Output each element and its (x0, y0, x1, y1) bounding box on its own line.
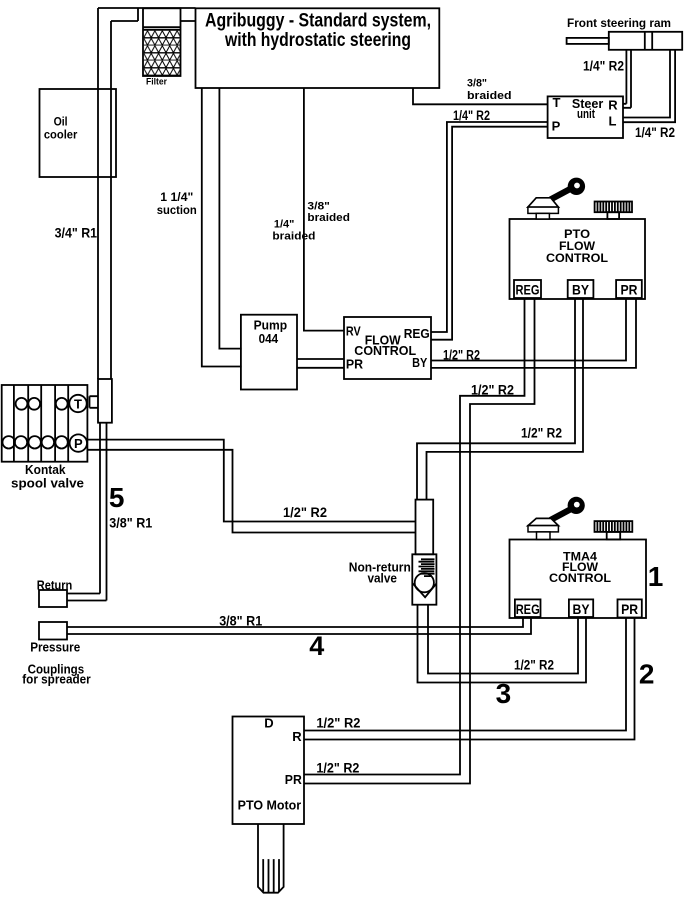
non-return valve (349, 500, 437, 605)
svg-text:R: R (292, 729, 302, 744)
svg-text:braided: braided (272, 231, 315, 243)
wire: FC REG to steer P (1/4" R2) (431, 122, 548, 340)
PTO motor (233, 716, 305, 893)
wire: return to Return coupling (67, 423, 107, 601)
svg-text:1/2" R2: 1/2" R2 (316, 716, 360, 731)
wire: return line tank-filter-cooler-kontak (3/4" R1) (98, 8, 196, 379)
svg-text:braided: braided (307, 212, 350, 224)
svg-text:L: L (609, 113, 617, 128)
svg-text:P: P (74, 436, 83, 451)
svg-text:PR: PR (621, 282, 638, 298)
svg-text:cooler: cooler (44, 127, 78, 141)
wire: PTO REG to motor PR (1/2" R2) (304, 299, 535, 784)
wire: tank to steer T (3/8" braided, single) (413, 88, 548, 104)
wire: pump PR pair (297, 359, 344, 368)
svg-text:1/2" R2: 1/2" R2 (316, 761, 359, 776)
front steering ram (567, 16, 683, 50)
svg-text:CONTROL: CONTROL (354, 343, 416, 358)
svg-text:1/2" R2: 1/2" R2 (471, 383, 514, 398)
svg-text:1/4": 1/4" (274, 219, 295, 231)
wire: PTO BY to non-return valve (1/2" R2) (417, 299, 583, 500)
svg-text:braided: braided (467, 90, 512, 102)
fitting block at kontak T (90, 379, 112, 423)
svg-text:CONTROL: CONTROL (549, 571, 611, 585)
wire: TMA4 PR to motor R (1/2" R2) (304, 618, 635, 740)
svg-text:PR: PR (621, 601, 638, 617)
svg-text:Pump: Pump (254, 319, 288, 333)
svg-text:BY: BY (573, 601, 591, 617)
wire: kontak P to non-return valve (1/2" R2) (87, 440, 416, 533)
svg-text:REG: REG (516, 601, 540, 617)
TMA4 knob (595, 521, 633, 539)
svg-text:1/4" R2: 1/4" R2 (453, 108, 490, 123)
svg-text:P: P (552, 119, 561, 134)
tank / title box (196, 8, 440, 88)
wire: non-return valve to TMA4 BY (1/2" R2) (418, 605, 587, 683)
svg-text:T: T (74, 397, 82, 412)
svg-text:1/2" R2: 1/2" R2 (521, 426, 562, 441)
wire: 3/8" braided to RV (304, 88, 344, 331)
svg-text:suction: suction (157, 203, 197, 217)
svg-text:1/2" R2: 1/2" R2 (283, 505, 327, 520)
svg-text:1/4" R2: 1/4" R2 (583, 59, 624, 74)
svg-text:3/8": 3/8" (307, 201, 330, 213)
svg-text:1/2" R2: 1/2" R2 (514, 658, 554, 673)
svg-text:BY: BY (412, 355, 427, 370)
svg-text:3/8": 3/8" (467, 78, 487, 90)
svg-text:2: 2 (639, 659, 655, 690)
return coupling (37, 578, 73, 608)
PTO lever (528, 178, 585, 219)
wire: TMA4 REG to pressure coupling (3/8" R1) (67, 617, 531, 634)
TMA4 flow control (510, 540, 647, 619)
svg-text:BY: BY (572, 282, 590, 298)
svg-text:T: T (553, 95, 561, 110)
svg-text:4: 4 (309, 631, 324, 661)
svg-text:1/2" R2: 1/2" R2 (443, 348, 480, 363)
PTO flow control (510, 219, 646, 299)
PTO knob (595, 202, 632, 220)
svg-text:1/4" R2: 1/4" R2 (635, 125, 675, 140)
filter F1 (143, 8, 181, 87)
wire: FC BY to PTO PR (1/2" R2) (431, 299, 636, 368)
svg-text:spool valve: spool valve (11, 476, 84, 491)
svg-text:valve: valve (367, 571, 397, 586)
svg-text:5: 5 (109, 482, 125, 513)
TMA4 lever (528, 497, 585, 540)
wire: steer R to ram (1/4" R2) (623, 50, 631, 108)
svg-text:3/8" R1: 3/8" R1 (109, 515, 152, 531)
svg-text:CONTROL: CONTROL (546, 251, 608, 265)
svg-text:PR: PR (285, 772, 303, 787)
wire: steer L to ram right (1/4" R2) (623, 50, 675, 122)
svg-text:R: R (608, 98, 618, 113)
svg-text:1 1/4": 1 1/4" (160, 190, 193, 204)
pressure coupling (22, 622, 91, 686)
wire: suction pair (1 1/4" suction) (202, 88, 242, 367)
svg-text:PTO Motor: PTO Motor (238, 798, 302, 813)
Kontak spool valve (2, 385, 88, 491)
svg-text:REG: REG (404, 326, 430, 341)
svg-text:RV: RV (346, 324, 361, 339)
svg-text:044: 044 (259, 332, 279, 346)
svg-text:Oil: Oil (54, 114, 68, 128)
svg-text:3: 3 (496, 678, 512, 709)
svg-text:PR: PR (346, 357, 364, 372)
svg-text:Agribuggy - Standard system,: Agribuggy - Standard system, (205, 11, 431, 32)
svg-text:3/4" R1: 3/4" R1 (55, 225, 98, 241)
oil cooler (40, 89, 117, 177)
svg-text:Pressure: Pressure (30, 640, 80, 655)
svg-text:REG: REG (516, 282, 540, 298)
svg-text:Filter: Filter (146, 76, 167, 87)
svg-text:1: 1 (648, 561, 664, 592)
pump 044 (241, 315, 297, 390)
svg-text:Front steering ram: Front steering ram (567, 16, 671, 30)
svg-text:unit: unit (577, 107, 596, 121)
svg-text:with hydrostatic steering: with hydrostatic steering (224, 30, 411, 51)
svg-text:for spreader: for spreader (22, 671, 91, 686)
steer unit (548, 95, 623, 138)
svg-text:3/8" R1: 3/8" R1 (219, 613, 262, 629)
svg-text:D: D (264, 716, 273, 731)
flow control U1 (344, 317, 431, 379)
